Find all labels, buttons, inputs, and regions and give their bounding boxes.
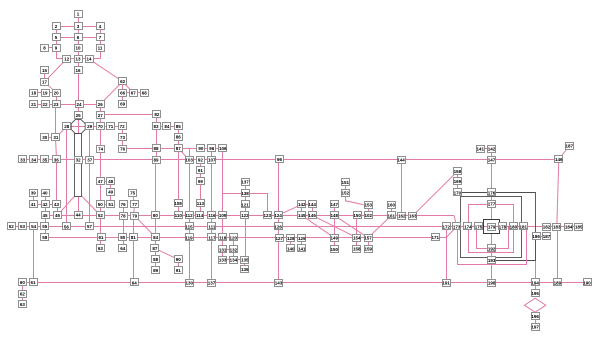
svg-text:55: 55 (42, 224, 48, 229)
node 184 (565, 224, 573, 231)
svg-text:34: 34 (31, 157, 37, 162)
node 122 (241, 212, 250, 219)
edge 14-62 diagonal (89, 59, 123, 82)
node 130 (186, 280, 194, 287)
svg-text:70: 70 (98, 124, 104, 129)
svg-text:24: 24 (76, 102, 82, 107)
svg-text:143: 143 (275, 281, 283, 286)
node 113 (197, 200, 205, 207)
node 31 (52, 134, 60, 141)
node 183 (553, 224, 562, 231)
edge 179-192-193-198 (491, 234, 493, 283)
svg-text:123: 123 (263, 213, 271, 218)
svg-text:20: 20 (54, 91, 60, 96)
long bus y227 (11, 226, 579, 228)
svg-text:142: 142 (298, 202, 306, 207)
svg-text:153: 153 (365, 203, 373, 208)
edge 142-145 (301, 204, 303, 215)
node 7 (97, 34, 105, 41)
svg-text:53: 53 (20, 224, 26, 229)
svg-text:35: 35 (42, 157, 48, 162)
edge 4-7 (100, 26, 102, 37)
svg-text:57: 57 (87, 224, 93, 229)
svg-text:64: 64 (132, 280, 138, 285)
node 24 (76, 101, 84, 108)
node 198 (488, 280, 496, 287)
node 115 (185, 223, 193, 230)
svg-text:11: 11 (98, 46, 103, 51)
svg-text:148: 148 (330, 213, 338, 218)
node 148 (330, 212, 338, 219)
edge 186-187b (536, 236, 546, 238)
node 26 (97, 101, 105, 108)
node 192 (488, 245, 496, 252)
edge 85-86-87 (178, 126, 180, 148)
node 84 (163, 123, 171, 130)
svg-text:52: 52 (98, 213, 104, 218)
node 25 (75, 112, 83, 119)
svg-text:56: 56 (64, 224, 70, 229)
svg-text:40: 40 (42, 191, 48, 196)
svg-text:51: 51 (108, 202, 114, 207)
node 6 (75, 34, 83, 41)
svg-text:160: 160 (388, 203, 396, 208)
svg-text:141: 141 (298, 246, 306, 251)
node 66 (119, 90, 127, 97)
edge 9-12 elbow (56, 48, 58, 59)
node 62 (119, 78, 127, 85)
svg-text:45: 45 (42, 213, 48, 218)
node 55 (41, 223, 49, 230)
svg-text:13: 13 (75, 57, 81, 62)
svg-text:163: 163 (409, 214, 417, 219)
svg-text:115: 115 (185, 224, 193, 229)
edge 41-42-43 (33, 204, 56, 206)
svg-text:102: 102 (365, 213, 373, 218)
node 89 (153, 157, 161, 164)
edge 13-16 (78, 59, 80, 70)
node 144 (308, 201, 316, 208)
svg-text:48: 48 (108, 179, 114, 184)
edge 128-140 (290, 238, 292, 249)
node 9 (53, 45, 61, 52)
edge 103-112 vertical (189, 160, 191, 216)
node 44 (75, 212, 83, 219)
svg-text:78: 78 (121, 213, 127, 218)
svg-text:154: 154 (353, 235, 361, 240)
node 96 (276, 156, 284, 163)
node 103 (185, 157, 193, 164)
edge 157-159 (368, 238, 370, 249)
svg-text:76: 76 (120, 147, 126, 152)
nested loop pink rect middle (469, 205, 514, 253)
edge 163-168 diagonal (413, 171, 458, 215)
node 169 (454, 178, 462, 185)
long bus y238 (45, 237, 439, 239)
node 150 (330, 246, 338, 253)
svg-text:66: 66 (120, 91, 126, 96)
svg-text:134: 134 (230, 258, 238, 263)
svg-text:28: 28 (64, 124, 70, 129)
node 11 (97, 45, 105, 52)
edge 133-135 (223, 259, 245, 261)
svg-text:92: 92 (198, 157, 204, 162)
edge 90-91 (178, 260, 180, 271)
svg-text:175: 175 (475, 224, 483, 229)
edge 47-48 (100, 181, 110, 183)
node 87 (175, 145, 183, 152)
node 19 (42, 90, 50, 97)
edge 12-17 diagonal (45, 59, 67, 82)
node 75 (129, 190, 137, 197)
edge 62-66 (122, 82, 124, 93)
svg-text:151: 151 (342, 180, 350, 185)
node 112 (185, 212, 193, 219)
svg-text:73: 73 (120, 135, 126, 140)
svg-text:147: 147 (488, 158, 496, 163)
svg-text:197: 197 (531, 325, 539, 330)
edge 161-157 diagonal (368, 216, 391, 238)
edge 72-73-76 (122, 126, 124, 148)
node 141 (298, 245, 306, 252)
svg-text:147: 147 (330, 202, 338, 207)
node 91 (197, 167, 205, 174)
edge 138 bracket right (245, 194, 268, 216)
edge 112-115-119-130 (189, 215, 191, 282)
edge 168-169-170 (457, 171, 459, 192)
svg-text:89: 89 (153, 268, 159, 273)
node 157 (364, 235, 372, 242)
node 61 (98, 234, 106, 241)
edge 96-107 (211, 148, 213, 159)
edge 83-88 (156, 126, 158, 148)
edge 1-3 (78, 14, 80, 26)
node 174 (464, 223, 473, 230)
node 195 (531, 290, 539, 297)
node 163 (409, 213, 417, 220)
edge 120-132-134 (233, 238, 235, 260)
node 67 (130, 90, 138, 97)
edge 40-42-45-55-58 (45, 193, 47, 238)
node 107 (208, 157, 217, 164)
svg-text:80: 80 (120, 235, 126, 240)
svg-text:157: 157 (364, 235, 372, 240)
edge 15-17 (44, 70, 46, 81)
node 51 (107, 201, 115, 208)
node 186 (532, 233, 540, 240)
svg-text:84: 84 (153, 235, 159, 240)
edge 124-126-127-143 (278, 215, 280, 283)
nested loop dark L path 170-193 (462, 193, 536, 261)
node 170 (454, 189, 462, 196)
node 71 (107, 123, 115, 130)
edge 39-41 (33, 193, 35, 205)
svg-text:158: 158 (353, 247, 361, 252)
svg-text:83: 83 (153, 124, 159, 129)
svg-text:106: 106 (219, 146, 227, 151)
svg-text:194: 194 (531, 280, 539, 285)
edge 113-114 (200, 203, 202, 215)
svg-text:63: 63 (20, 302, 26, 307)
node 30 (41, 134, 49, 141)
svg-text:187: 187 (565, 144, 573, 149)
edge 107-116-111-117-137 (211, 160, 213, 283)
node 151 (342, 179, 350, 186)
svg-text:91: 91 (176, 268, 182, 273)
node 99 (197, 178, 205, 185)
svg-text:52: 52 (9, 224, 15, 229)
svg-text:161: 161 (388, 213, 396, 218)
node 129 (298, 235, 306, 242)
svg-text:116: 116 (208, 213, 216, 218)
svg-text:64: 64 (120, 246, 126, 251)
edge 50-51 (100, 204, 111, 206)
edge 196-197 (535, 316, 537, 327)
edge 131-132 (223, 249, 234, 251)
svg-text:174: 174 (464, 224, 472, 229)
node 35 (41, 156, 49, 163)
node 69 (119, 101, 127, 108)
svg-text:29: 29 (87, 124, 93, 129)
svg-text:99: 99 (198, 179, 204, 184)
node 118 (219, 234, 227, 241)
svg-text:131: 131 (219, 247, 227, 252)
svg-text:124: 124 (274, 213, 282, 218)
node 40 (42, 190, 50, 197)
svg-text:144: 144 (308, 202, 316, 207)
node 187 (543, 233, 551, 240)
node 171 (432, 234, 440, 241)
node 106 (219, 145, 228, 152)
node 178 (499, 223, 507, 230)
node 114 (196, 212, 204, 219)
svg-text:58: 58 (42, 235, 48, 240)
svg-text:41: 41 (31, 202, 37, 207)
edge 138 bracket left (223, 194, 246, 216)
edge 47-50-52-61-63 (100, 181, 102, 248)
svg-text:87: 87 (176, 146, 182, 151)
node 70 (97, 123, 105, 130)
svg-text:49: 49 (108, 189, 114, 194)
node 63 (19, 301, 27, 308)
nested loop pink rect outer (458, 227, 527, 265)
svg-text:177: 177 (488, 202, 496, 207)
svg-text:159: 159 (365, 247, 373, 252)
svg-text:60: 60 (20, 280, 26, 285)
svg-text:178: 178 (499, 224, 507, 229)
edge 92-91-99-113 (200, 160, 202, 204)
node 91 (175, 267, 183, 274)
svg-text:89: 89 (153, 157, 159, 162)
node 73 (119, 134, 127, 141)
node 88 (153, 145, 161, 152)
node 109 (219, 212, 227, 219)
node 120 (229, 234, 237, 241)
svg-text:193: 193 (488, 258, 496, 263)
node 78 (120, 213, 128, 220)
node 124 (274, 212, 282, 219)
svg-text:68: 68 (142, 91, 148, 96)
node 146 (308, 212, 316, 219)
node 88 (152, 256, 160, 263)
node 189 (554, 279, 562, 286)
edge rect-52 diagonal (82, 196, 100, 215)
svg-text:172: 172 (442, 224, 450, 229)
edge 24-25 (78, 104, 80, 115)
node 39 (30, 190, 38, 197)
row 33-36 (23, 159, 57, 161)
svg-text:10: 10 (75, 46, 81, 51)
svg-text:62: 62 (120, 79, 126, 84)
svg-text:71: 71 (108, 124, 114, 129)
node 172 (442, 223, 450, 230)
edge 147-176-177-179 (491, 160, 493, 220)
node 181 (520, 223, 528, 230)
svg-text:189: 189 (554, 280, 562, 285)
node 22 (42, 101, 50, 108)
long bus y215 (45, 215, 454, 217)
edge 43-46 (57, 205, 59, 216)
svg-text:195: 195 (531, 291, 539, 296)
node 80 (152, 212, 160, 219)
svg-text:144: 144 (397, 158, 405, 163)
svg-text:82: 82 (154, 112, 160, 117)
node 50 (97, 201, 105, 208)
node 20 (53, 90, 61, 97)
svg-text:23: 23 (53, 102, 59, 107)
svg-text:84: 84 (164, 124, 170, 129)
node 152 (342, 190, 350, 197)
node 142 (488, 146, 496, 153)
node 8 (41, 45, 49, 52)
node 37 (86, 157, 94, 164)
node 136 (241, 266, 249, 273)
svg-text:79: 79 (132, 213, 138, 218)
svg-text:30: 30 (42, 135, 48, 140)
node 117 (208, 234, 217, 241)
svg-text:198: 198 (488, 281, 496, 286)
node 32 (75, 157, 83, 164)
svg-text:184: 184 (565, 224, 573, 229)
node 41 (30, 201, 38, 208)
node 149 (330, 235, 338, 242)
svg-text:126: 126 (274, 224, 282, 229)
node 85 (175, 123, 183, 130)
node 177 (488, 201, 496, 208)
svg-text:46: 46 (55, 213, 61, 218)
svg-text:26: 26 (98, 102, 104, 107)
node 16 (75, 67, 83, 74)
row 66-68 (123, 92, 145, 94)
node 191 (442, 280, 450, 287)
node 185 (575, 224, 584, 231)
edge 108-110 (178, 203, 180, 215)
node 187 (565, 143, 573, 150)
edge 60-61 (22, 282, 33, 284)
edge 62-67 diagonal (123, 82, 134, 93)
svg-text:181: 181 (520, 224, 528, 229)
svg-text:21: 21 (31, 102, 37, 107)
node 147 (330, 201, 338, 208)
node 52 (8, 223, 16, 230)
edge 146b-187 diagonal (559, 146, 569, 160)
node 36 (53, 156, 61, 163)
svg-text:171: 171 (432, 235, 440, 240)
node 29 (86, 123, 94, 130)
svg-text:137: 137 (241, 180, 249, 185)
edge 30-31 (45, 137, 56, 139)
edge 23-31-36-43 (56, 104, 57, 204)
edge 27-70 (100, 115, 102, 126)
edge 96-124 vertical (278, 160, 280, 216)
node 128 (287, 235, 295, 242)
node 10 (75, 45, 83, 52)
svg-text:103: 103 (185, 157, 193, 162)
edge 186-194 (535, 237, 537, 283)
node 147 (488, 157, 496, 164)
svg-text:33: 33 (20, 157, 26, 162)
node 83 (153, 123, 161, 130)
svg-text:76: 76 (121, 202, 127, 207)
edge 124-142 diagonal (278, 204, 302, 215)
node 48 (107, 178, 115, 185)
node 150 (353, 212, 361, 219)
node 159 (365, 246, 373, 253)
node 180 (510, 223, 518, 230)
node 111 (208, 223, 216, 230)
node 153 (365, 202, 373, 209)
octagon junction (71, 120, 85, 134)
node 154 (353, 235, 362, 242)
svg-text:127: 127 (275, 236, 283, 241)
node 72 (119, 123, 127, 130)
node 92 (197, 157, 205, 164)
edge 82-83 (156, 114, 158, 126)
node 197 (531, 324, 539, 331)
edge 77-79-81-64b (134, 204, 135, 282)
node 123 (263, 212, 271, 219)
svg-text:31: 31 (53, 135, 59, 140)
long bus y160 (23, 159, 559, 161)
edge 28-31 diagonal (56, 126, 67, 137)
svg-text:109: 109 (219, 213, 227, 218)
svg-text:39: 39 (31, 191, 37, 196)
node 108 (174, 200, 182, 207)
svg-text:187: 187 (543, 234, 551, 239)
node 21 (30, 101, 38, 108)
svg-text:108: 108 (174, 201, 182, 206)
svg-text:179: 179 (488, 225, 496, 230)
edge 88-89 (156, 148, 158, 159)
node 133 (219, 257, 227, 264)
edge 54-61 vertical (33, 226, 35, 282)
node 190 (583, 279, 591, 286)
svg-text:170: 170 (454, 190, 462, 195)
svg-text:16: 16 (75, 68, 81, 73)
svg-text:32: 32 (76, 158, 82, 163)
edge 129-141 (301, 238, 303, 249)
edge rect-46 diagonal (58, 196, 75, 215)
edge 141-142b (480, 148, 491, 150)
svg-text:61: 61 (30, 280, 36, 285)
node 46 (54, 212, 62, 219)
svg-text:90: 90 (176, 257, 182, 262)
node 161 (388, 212, 396, 219)
svg-text:180: 180 (510, 224, 518, 229)
row 18-20 (34, 92, 57, 94)
node 160 (388, 202, 396, 209)
node 121 (241, 201, 249, 208)
